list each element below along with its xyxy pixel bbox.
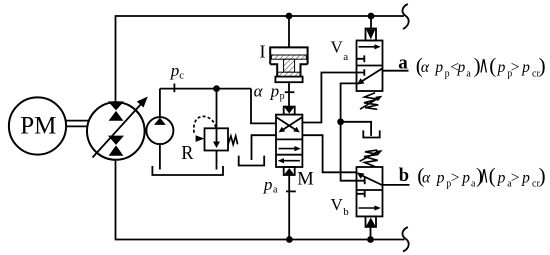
intensifier I piston top hatched xyxy=(271,55,306,59)
intensifier I outer large cylinder xyxy=(270,47,307,64)
svg-text:I: I xyxy=(260,42,266,62)
svg-text:a: a xyxy=(343,51,348,63)
node junction dot bottom rail below pa line xyxy=(286,236,293,243)
prime mover PM circle xyxy=(9,97,66,154)
valve Vb divider xyxy=(357,189,383,191)
charge pump circle xyxy=(146,117,173,144)
svg-text:pc: pc xyxy=(170,61,185,82)
wire R valve to tank xyxy=(216,151,218,170)
main valve bottom pilot triangle xyxy=(284,168,294,174)
svg-text:(αpp>pa)∧(pa>pcr): (αpp>pa)∧(pa>pcr) xyxy=(417,162,545,189)
svg-text:PM: PM xyxy=(20,113,56,140)
svg-text:M: M xyxy=(297,170,313,190)
svg-text:b: b xyxy=(399,166,409,186)
main valve top pilot triangle xyxy=(284,107,294,113)
wire Va diag port down through tank dot to Vb xyxy=(341,83,365,180)
wire R valve supply down from junction xyxy=(216,89,218,129)
valve Vb blocked port stub top xyxy=(364,177,366,184)
wire valve right port2 down to Vb xyxy=(302,135,356,172)
node junction dot bottom rail below Vb xyxy=(367,236,374,243)
tank symbol right xyxy=(363,130,379,137)
break symbol top right xyxy=(402,4,408,29)
relief valve R pilot dashed line xyxy=(194,116,216,134)
wire tank branch xyxy=(341,122,372,136)
valve Va body xyxy=(357,41,383,92)
relief valve R body xyxy=(205,128,229,150)
valve Vb spring arrow xyxy=(360,152,378,162)
main valve bottom pilot box xyxy=(284,167,295,175)
node alpha pp tap tick xyxy=(285,91,295,93)
intensifier I small piston hatched xyxy=(278,72,300,76)
tank symbol center xyxy=(239,156,265,166)
wire pa line down to rail xyxy=(288,175,290,240)
relief valve R internal arrow xyxy=(216,129,218,143)
valve Vb spring xyxy=(364,150,378,167)
main valve divider 1 xyxy=(276,138,302,140)
svg-text:pa: pa xyxy=(263,175,278,196)
svg-text:a: a xyxy=(398,52,408,73)
valve Va blocked port stub bottom xyxy=(357,69,365,76)
node junction dot tank branch xyxy=(337,118,344,125)
break symbol bottom right xyxy=(402,227,408,252)
valve Vb bottom arrow xyxy=(359,207,377,209)
valve Va pilot triangle xyxy=(366,29,375,39)
svg-text:V: V xyxy=(331,195,344,214)
wire Vb pilot to rail xyxy=(370,227,372,240)
svg-text:(αpp<pa)∧(pp>pcr): (αpp<pa)∧(pp>pcr) xyxy=(416,52,546,79)
pump top hourglass triangles xyxy=(108,101,124,120)
intensifier I step shoulders xyxy=(270,64,307,79)
wire I to alpha pp xyxy=(288,82,290,106)
intensifier I bottom cap xyxy=(275,77,302,83)
valve Va blocked port stub top xyxy=(357,55,365,62)
wire pc line down into valve left port xyxy=(251,89,276,124)
pilot line a xyxy=(383,70,409,72)
valve Vb body xyxy=(357,167,383,216)
node pc tap tick xyxy=(173,84,175,93)
intensifier I supply wire xyxy=(288,16,290,47)
wire charge pump up to pc line xyxy=(159,89,161,118)
valve Va pilot wire xyxy=(370,16,372,29)
main valve middle arrow right xyxy=(279,148,297,150)
valve Va relief diagonal xyxy=(360,68,383,83)
valve Va spring xyxy=(364,93,378,110)
wire pc horizontal line xyxy=(160,88,251,90)
relief valve R pilot arrowhead xyxy=(196,135,205,142)
main valve body xyxy=(276,115,302,167)
valve Vb blocked port stub bottom xyxy=(357,190,365,197)
svg-text:R: R xyxy=(181,142,194,164)
node junction dot pc line xyxy=(213,85,220,92)
pump P variable displacement circle xyxy=(87,102,145,160)
wire valve right port1 up to Va xyxy=(302,73,356,123)
valve Va spring arrow xyxy=(360,99,378,110)
main valve top pilot box xyxy=(284,107,295,115)
main valve crossed arrows xyxy=(277,117,298,130)
svg-text:b: b xyxy=(343,206,349,218)
valve Vb pilot triangle xyxy=(366,218,375,227)
charge pump triangle xyxy=(154,118,166,125)
wire top rail from pump to break xyxy=(116,16,405,103)
svg-text:V: V xyxy=(331,38,344,57)
pump bottom hourglass triangles xyxy=(108,136,124,156)
main valve divider 2 xyxy=(276,154,302,156)
valve Va top arrow xyxy=(359,46,377,48)
node junction dot top rail above Va xyxy=(368,13,375,20)
main valve bottom arrow left xyxy=(282,160,300,162)
valve Vb pilot box xyxy=(366,216,377,227)
intensifier I piston stem hatched xyxy=(284,59,295,72)
shaft double line xyxy=(66,120,88,122)
svg-text:αpp: αpp xyxy=(254,82,285,103)
wire bottom rail from pump to break xyxy=(116,160,405,240)
pump variable displacement arrow xyxy=(93,104,142,158)
valve Va pilot box xyxy=(366,29,377,41)
pilot line b xyxy=(383,184,410,186)
valve Va divider xyxy=(357,65,383,67)
wire charge pump down to tank xyxy=(159,144,161,169)
valve Vb relief diagonal xyxy=(360,174,383,185)
tank symbol left xyxy=(152,166,223,175)
node junction dot top rail above I xyxy=(286,13,293,20)
relief valve R spring xyxy=(228,136,238,145)
wire tank line for main valve xyxy=(252,135,277,160)
node pa tap tick xyxy=(286,190,296,192)
